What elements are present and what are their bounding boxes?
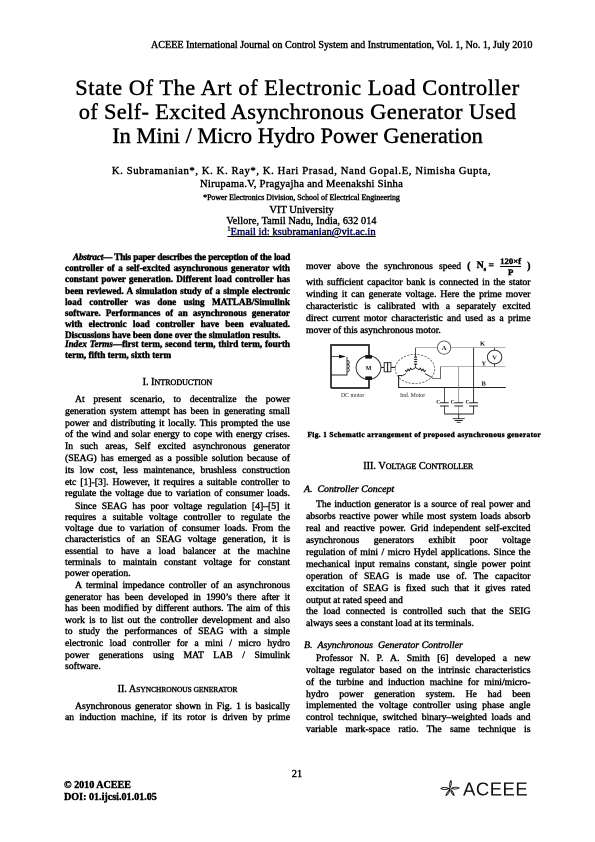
- ACEEE logo flower: [437, 777, 537, 801]
- svg-text:C: C: [466, 400, 470, 406]
- field coil L: [347, 361, 349, 372]
- field circuit arrow: [331, 356, 340, 358]
- svg-text:Y: Y: [482, 360, 487, 367]
- wire: K line: [416, 347, 506, 349]
- wire: phase K riser: [415, 348, 417, 355]
- abstract: [65, 252, 290, 341]
- heading I. Introduction: [65, 377, 290, 388]
- svg-text:C: C: [436, 400, 440, 406]
- figure 1 schematic: [320, 330, 550, 442]
- intro paragraph 1: [65, 394, 290, 500]
- intro paragraph 2: [65, 501, 290, 580]
- journal header line: [151, 40, 541, 51]
- stator winding Y: up arm: [415, 355, 417, 368]
- svg-text:B: B: [482, 381, 487, 388]
- wire: capacitor bottom bus: [444, 413, 473, 415]
- shaft coupling: [381, 366, 395, 368]
- DC motor M1: [356, 356, 381, 380]
- wire: phase B from bottom-left: [399, 376, 506, 388]
- index terms: [65, 339, 290, 360]
- heading II. Asynchronous generator: [65, 684, 290, 695]
- capacitor C1 drop: [443, 388, 445, 415]
- right col para B: [306, 499, 531, 630]
- right col para A lines 2-6: [306, 277, 531, 337]
- subheading A. Controller Concept: [304, 484, 529, 495]
- email link: [0, 227, 595, 238]
- intro paragraph 3: [65, 580, 290, 672]
- voltmeter V: [494, 348, 496, 367]
- svg-text:K: K: [480, 341, 485, 348]
- svg-text:Ind. Motor: Ind. Motor: [400, 393, 425, 399]
- svg-text:DC motor: DC motor: [341, 393, 364, 399]
- field circuit box: [331, 357, 347, 375]
- copyright footer: [64, 780, 264, 804]
- wire: top armature bus: [331, 345, 369, 388]
- svg-text:V: V: [492, 355, 497, 362]
- wire: bottom armature bus: [331, 380, 369, 388]
- affiliation: [0, 193, 595, 202]
- ammeter A: [438, 341, 451, 354]
- svg-text:A: A: [442, 345, 447, 352]
- heading III. Voltage Controller: [306, 461, 531, 472]
- capacitor C2 drop: [458, 367, 460, 414]
- capacitor C3 drop: [473, 348, 475, 414]
- authors: [0, 166, 595, 177]
- paper title: [0, 76, 595, 149]
- wire: phase Y from right arm: [430, 367, 440, 379]
- section II paragraph: [65, 701, 290, 725]
- svg-text:ACEEE: ACEEE: [463, 779, 528, 800]
- induction motor: [395, 354, 435, 383]
- subheading B. Asynchronous Generator Controller: [304, 640, 529, 651]
- right col para C: [306, 653, 531, 736]
- svg-text:M: M: [366, 365, 372, 372]
- figure caption: [300, 430, 549, 439]
- brush bottom: [365, 376, 372, 380]
- page number 21: [282, 769, 312, 780]
- svg-text:C: C: [451, 400, 455, 406]
- right col para A line 1 with formula: [306, 257, 531, 277]
- stator winding Y: right arm: [416, 368, 431, 377]
- stator winding Y: left arm: [402, 368, 416, 377]
- brush top: [365, 355, 372, 359]
- ground: [453, 414, 465, 422]
